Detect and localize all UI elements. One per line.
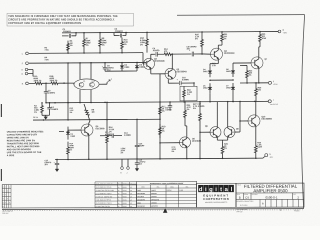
resistor R24 4.7K bbox=[184, 102, 192, 126]
junction dots line1 bbox=[67, 52, 69, 54]
svg-text:5%: 5% bbox=[224, 148, 227, 150]
svg-text:1/2W: 1/2W bbox=[257, 147, 262, 149]
wire Q7 emitter to output bbox=[258, 69, 260, 83]
wire feeder x107 bbox=[106, 102, 108, 119]
wire bridge mid tie bbox=[210, 79, 233, 81]
svg-text:C CHG R14 470 5% 1/4W: C CHG R14 470 5% 1/4W bbox=[96, 190, 115, 192]
capacitor C2 .001MFD bbox=[114, 29, 126, 38]
svg-text:D662: D662 bbox=[226, 87, 231, 89]
resistor R16 3.01K bbox=[106, 120, 115, 160]
svg-text:CS: CS bbox=[245, 196, 249, 200]
wire line 5 segments bbox=[29, 82, 33, 84]
svg-text:1/8W 1%: 1/8W 1% bbox=[34, 80, 42, 82]
svg-text:1%: 1% bbox=[140, 44, 143, 46]
svg-text:4/9/69: 4/9/69 bbox=[123, 187, 127, 189]
svg-text:d: d bbox=[199, 187, 203, 193]
svg-text:COPYRIGHT 1969 BY DIGITAL EQUI: COPYRIGHT 1969 BY DIGITAL EQUIPMENT CORP… bbox=[8, 22, 81, 25]
svg-text:DEC3639: DEC3639 bbox=[137, 196, 144, 198]
resistor R17 1K bbox=[159, 102, 167, 119]
svg-text:2N3009: 2N3009 bbox=[151, 193, 156, 195]
svg-text:4/9/69: 4/9/69 bbox=[123, 190, 127, 192]
proprietary note text bbox=[7, 13, 134, 26]
svg-text:6.8MFD: 6.8MFD bbox=[182, 79, 190, 81]
svg-text:CORPORATION: CORPORATION bbox=[203, 197, 229, 201]
svg-text:D664: D664 bbox=[124, 66, 130, 69]
wire input line 2 rail bbox=[29, 61, 146, 64]
svg-text:5: 5 bbox=[273, 81, 274, 83]
wire Q1 collector leads up bbox=[79, 63, 81, 79]
svg-text:.001MFD: .001MFD bbox=[63, 31, 72, 33]
revision table frame bbox=[2, 184, 136, 208]
resistor R14 470 bbox=[163, 48, 173, 56]
svg-text:D662: D662 bbox=[71, 136, 76, 138]
resistor R25 100 bbox=[259, 32, 267, 45]
svg-text:1%: 1% bbox=[34, 112, 37, 114]
board pin J bbox=[126, 159, 129, 174]
svg-text:.01MFD: .01MFD bbox=[165, 109, 172, 111]
svg-text:7.5K: 7.5K bbox=[45, 50, 50, 52]
sheet top border bbox=[177, 14, 305, 17]
svg-text:E CHG C6 .01MFD 35V: E CHG C6 .01MFD 35V bbox=[96, 196, 113, 198]
svg-text:5%: 5% bbox=[172, 151, 175, 153]
transistor Q3 DEC6534D bbox=[165, 68, 187, 79]
diode D3 D662 bbox=[66, 127, 75, 140]
svg-text:5%: 5% bbox=[162, 131, 165, 133]
svg-text:TITLE: TITLE bbox=[237, 184, 241, 186]
svg-text:1N3606: 1N3606 bbox=[151, 202, 156, 204]
size code number rev cells bbox=[237, 193, 300, 200]
svg-text:DEC6534D: DEC6534D bbox=[176, 70, 187, 73]
terminal 2 input bbox=[22, 62, 29, 65]
svg-text:.01MFD: .01MFD bbox=[153, 50, 161, 52]
wire node x68 vertical bbox=[67, 63, 69, 103]
svg-text:1M: 1M bbox=[92, 112, 95, 114]
terminal 5 input bbox=[22, 82, 29, 85]
svg-text:.01MFD: .01MFD bbox=[198, 106, 206, 108]
capacitor C3 1.0MFD bbox=[44, 83, 56, 103]
wire bottom rail E (-15V) bbox=[55, 158, 263, 159]
capacitor C6 .01MFD bbox=[153, 48, 164, 57]
capacitor C15 6.8MFD to ground bbox=[45, 159, 60, 169]
wire Q3 emitter bbox=[167, 79, 169, 83]
wire Q6 emitter bbox=[186, 148, 188, 159]
resistor R20 2.2K bbox=[195, 32, 203, 54]
svg-text:220: 220 bbox=[258, 89, 261, 91]
svg-text:bk: bk bbox=[118, 196, 120, 198]
resistor R6 1M bbox=[67, 41, 73, 54]
diode D6 bbox=[226, 67, 235, 78]
wire output line bbox=[240, 82, 268, 84]
svg-text:1%: 1% bbox=[70, 45, 73, 47]
capacitor C16 1.0MFD to ground bbox=[135, 159, 146, 169]
svg-text:6.8MFD: 6.8MFD bbox=[105, 134, 113, 136]
wire Q4 emitter bbox=[217, 60, 219, 64]
svg-text:F-ML-0500-0-1 REV F: F-ML-0500-0-1 REV F bbox=[96, 200, 111, 202]
ground symbol C16 bbox=[135, 168, 139, 171]
board pin H bbox=[120, 159, 123, 174]
svg-text:5%: 5% bbox=[224, 38, 227, 40]
svg-text:1%: 1% bbox=[86, 45, 89, 47]
diode D7 bbox=[226, 83, 235, 94]
wire Q8 collector bbox=[216, 102, 218, 127]
svg-text:AND ON 5X0 BOARDS: AND ON 5X0 BOARDS bbox=[7, 148, 32, 151]
svg-text:TRANSISTORS ARE DEC3009: TRANSISTORS ARE DEC3009 bbox=[7, 142, 40, 145]
wire Q2 collector to line y56 bbox=[150, 54, 152, 58]
transistor Q5 DEC3009 bbox=[81, 124, 105, 136]
resistor R14 604K bbox=[67, 142, 75, 160]
svg-text:4/9/69: 4/9/69 bbox=[123, 193, 127, 195]
terminal S output bbox=[269, 81, 279, 86]
svg-text:bk: bk bbox=[118, 200, 120, 202]
note arrow marker bbox=[163, 208, 167, 212]
svg-text:DEC3639B: DEC3639B bbox=[261, 118, 272, 120]
svg-text:1-5/8: 1-5/8 bbox=[179, 190, 183, 192]
capacitor C10 6.8MFD bbox=[177, 77, 194, 85]
svg-text:4/9/69: 4/9/69 bbox=[123, 184, 127, 186]
svg-text:bk: bk bbox=[118, 187, 120, 189]
drawing title text bbox=[237, 184, 298, 194]
resistor R1B 604K bbox=[49, 76, 60, 85]
junction dots rail C right bbox=[169, 101, 171, 103]
junction dots x160 bbox=[159, 101, 161, 103]
wire coupling line bbox=[151, 53, 156, 55]
resistor R8 604K bbox=[99, 33, 107, 53]
svg-text:0500-0-1: 0500-0-1 bbox=[265, 196, 277, 200]
svg-text:5%: 5% bbox=[193, 108, 196, 110]
junction dots rail E bbox=[67, 159, 69, 161]
svg-text:C6 1%: C6 1% bbox=[33, 117, 38, 119]
wire Q9 collector bbox=[227, 102, 229, 127]
svg-text:G-CS-0500-0-1 REV G: G-CS-0500-0-1 REV G bbox=[96, 203, 113, 205]
wire R22 top stub bbox=[240, 64, 247, 66]
title block frame bbox=[236, 183, 304, 207]
svg-text:DEC FORM NO: DEC FORM NO bbox=[237, 209, 248, 211]
svg-text:t: t bbox=[220, 187, 222, 193]
svg-text:H CHG R22 15K 5%: H CHG R22 15K 5% bbox=[96, 206, 111, 208]
wire rail D bbox=[33, 118, 160, 121]
svg-text:D662: D662 bbox=[203, 71, 208, 73]
svg-text:.001MFD: .001MFD bbox=[115, 31, 124, 33]
wire Q5 collector bbox=[89, 121, 90, 123]
svg-text:1%: 1% bbox=[70, 112, 73, 114]
terminal 4 shield pair bbox=[22, 69, 33, 76]
wire Q10 emitter bbox=[255, 127, 257, 141]
junction dots rail C left bbox=[41, 102, 43, 104]
resistor R22 15K bbox=[246, 65, 253, 83]
svg-text:25V: 25V bbox=[107, 70, 111, 72]
svg-text:B: B bbox=[239, 196, 241, 200]
resistor R21 330 bbox=[221, 32, 228, 44]
terminal 3 shield pair bbox=[22, 68, 33, 71]
wire Q4 base bbox=[202, 53, 211, 55]
wire Q2 base bbox=[142, 53, 144, 64]
svg-text:FLBC: FLBC bbox=[294, 210, 300, 212]
junction dots top rail bbox=[75, 32, 77, 34]
resistor R27 2.7K bbox=[193, 102, 201, 133]
svg-text:DEC3009: DEC3009 bbox=[96, 128, 106, 130]
svg-text:CIRCUITS ARE PROPRIETARY IN NA: CIRCUITS ARE PROPRIETARY IN NATURE AND S… bbox=[8, 19, 115, 22]
diode D2 bbox=[135, 62, 145, 71]
svg-text:1: 1 bbox=[273, 99, 274, 101]
transistor Q10 DEC3639B bbox=[248, 115, 272, 127]
resistor R29 2K bbox=[221, 142, 228, 159]
svg-text:D662: D662 bbox=[226, 71, 231, 73]
junction node line5 bbox=[45, 83, 47, 85]
svg-text:470: 470 bbox=[164, 50, 167, 53]
wire bridge left bottom bbox=[209, 94, 211, 102]
svg-text:A SIDE: A SIDE bbox=[7, 154, 15, 157]
transistor Q6 DEC3639 bbox=[180, 137, 202, 148]
svg-text:REV: REV bbox=[293, 194, 296, 196]
ground symbol C15 bbox=[55, 169, 59, 172]
capacitor C11 .01MFD bbox=[165, 102, 172, 111]
left form note bbox=[2, 211, 13, 215]
digital logo boxes bbox=[198, 185, 234, 193]
resistor R7 604K bbox=[83, 33, 91, 53]
svg-text:1%: 1% bbox=[121, 152, 124, 154]
wire +10V top rail bbox=[62, 31, 279, 32]
svg-text:RESISTORS ARE 1/4W 5%: RESISTORS ARE 1/4W 5% bbox=[7, 139, 35, 142]
svg-text:4/9/69: 4/9/69 bbox=[123, 203, 127, 205]
wire Q10 base bbox=[240, 120, 248, 122]
wire Q6 base bbox=[160, 142, 180, 144]
wire input line 1 bbox=[29, 52, 143, 55]
resistor R12 6.04K bbox=[140, 32, 148, 52]
svg-text:D-CS-0500-0-1 REV D: D-CS-0500-0-1 REV D bbox=[96, 193, 113, 195]
svg-text:THIS SCHEMATIC IS FURNISHED ON: THIS SCHEMATIC IS FURNISHED ONLY FOR TES… bbox=[8, 15, 118, 18]
svg-text:D662: D662 bbox=[203, 88, 208, 90]
transistor Q2 DEC6534B bbox=[144, 58, 165, 69]
svg-text:PRINTED CIRCUIT REV.: PRINTED CIRCUIT REV. bbox=[237, 201, 254, 203]
sheet bottom border bbox=[2, 208, 304, 211]
svg-text:bk: bk bbox=[118, 190, 120, 192]
capacitor C4 .01MFD bbox=[47, 103, 58, 116]
svg-text:4/9/69: 4/9/69 bbox=[123, 206, 127, 208]
svg-text:DEC3009B: DEC3009B bbox=[137, 193, 146, 195]
transistor Q4 DEC6534D bbox=[211, 48, 235, 60]
capacitor C7 6.8MFD bbox=[100, 132, 122, 138]
wire Q9 base bbox=[235, 131, 240, 133]
svg-text:B-CS-0500: B-CS-0500 bbox=[240, 205, 248, 207]
resistor R1A 604K bbox=[33, 75, 44, 85]
capacitor C14 680PF bbox=[135, 119, 145, 159]
wire feeder x240 bbox=[239, 102, 241, 122]
svg-text:DEC6534D: DEC6534D bbox=[224, 52, 235, 55]
selected resistor R18 box bbox=[180, 86, 197, 101]
logo block frame bbox=[197, 183, 237, 207]
capacitor C1 .001MFD bbox=[62, 29, 76, 38]
svg-text:Q1: Q1 bbox=[83, 81, 85, 83]
wire mid rail C bbox=[46, 101, 265, 102]
transistor Q9 differential right bbox=[224, 127, 240, 138]
diode D4 bbox=[203, 67, 212, 78]
svg-text:USE THE ETCH BOARD OF THE: USE THE ETCH BOARD OF THE bbox=[7, 151, 42, 154]
wire Q2 emitter to Q3 base bbox=[150, 69, 152, 74]
svg-text:7.5K: 7.5K bbox=[45, 59, 50, 61]
terminal G -15V bbox=[263, 154, 274, 159]
svg-text:1%: 1% bbox=[70, 149, 73, 151]
wire emitter join bbox=[216, 138, 218, 141]
svg-text:J: J bbox=[126, 172, 127, 174]
svg-text:bk: bk bbox=[118, 184, 120, 186]
left margin fold tick upper bbox=[0, 104, 2, 117]
wire Q1 output to test point bbox=[99, 79, 112, 84]
resistor R10 2.4K bbox=[121, 37, 129, 52]
svg-text:5%: 5% bbox=[249, 75, 252, 77]
transistor and diode conversion chart bbox=[137, 181, 197, 207]
wire diode subrail bbox=[105, 70, 137, 72]
wire Q1 base lead bbox=[64, 82, 74, 84]
svg-text:1.5K: 1.5K bbox=[212, 65, 217, 67]
svg-text:2: 2 bbox=[111, 79, 112, 81]
svg-text:UNLESS OTHERWISE INDICATED:: UNLESS OTHERWISE INDICATED: bbox=[7, 130, 44, 133]
terminal 1 input bbox=[22, 52, 29, 55]
svg-text:2N3639: 2N3639 bbox=[151, 196, 156, 198]
svg-text:1%: 1% bbox=[187, 94, 190, 96]
wire node x160 vertical bbox=[159, 74, 161, 159]
junction dots rail D bbox=[136, 119, 138, 121]
wire Q5 emitter bbox=[88, 136, 90, 159]
svg-text:g: g bbox=[209, 187, 213, 193]
svg-text:5%: 5% bbox=[195, 38, 198, 40]
printed circuit rev row bbox=[237, 199, 299, 207]
svg-text:OHMS ARE 1/4W 5%: OHMS ARE 1/4W 5% bbox=[7, 136, 29, 139]
ground symbol left bbox=[44, 117, 48, 120]
svg-text:5%: 5% bbox=[187, 109, 190, 111]
diode D5 bbox=[203, 83, 212, 94]
wire box to rail bbox=[183, 101, 185, 103]
svg-text:D662: D662 bbox=[137, 190, 141, 192]
wire Q6 collector bbox=[186, 126, 188, 137]
svg-text:1.0MFD: 1.0MFD bbox=[124, 135, 132, 137]
dual transistor Q1 DEC6534 bbox=[74, 79, 99, 90]
wire x200 lower bbox=[199, 132, 201, 158]
notes text block bbox=[7, 130, 44, 157]
wire Q8 base bbox=[200, 131, 210, 133]
svg-text:DEC FORM NO: DEC FORM NO bbox=[2, 211, 13, 213]
transistor Q8 differential left bbox=[205, 126, 221, 138]
svg-text:DRB 102: DRB 102 bbox=[2, 213, 8, 215]
svg-text:DEC6534B: DEC6534B bbox=[154, 60, 165, 63]
svg-text:1/2W: 1/2W bbox=[262, 38, 267, 40]
resistor R30 1.5K bbox=[255, 140, 263, 158]
resistor R19 1K bbox=[159, 124, 167, 138]
svg-text:680PF: 680PF bbox=[139, 145, 146, 147]
wire Q5 base bbox=[68, 129, 81, 131]
wire Q3 collector bbox=[171, 54, 173, 68]
terminal B +10V bbox=[278, 30, 287, 35]
svg-text:NUMBER: NUMBER bbox=[252, 194, 258, 196]
revision entries grid bbox=[95, 182, 137, 208]
svg-text:1.0MFD: 1.0MFD bbox=[48, 93, 56, 95]
svg-text:.01MFD: .01MFD bbox=[51, 109, 59, 111]
resistor R9 1M diagonal bbox=[84, 104, 95, 121]
svg-text:bk: bk bbox=[118, 193, 120, 195]
resistor R26 220 bbox=[255, 83, 262, 102]
svg-text:bk: bk bbox=[118, 203, 120, 205]
terminal E mid rail bbox=[265, 99, 278, 105]
svg-text:5%: 5% bbox=[124, 44, 127, 46]
svg-text:6534: 6534 bbox=[92, 81, 96, 83]
svg-text:4/9/69: 4/9/69 bbox=[123, 200, 127, 202]
svg-text:AMPLIFIER 0500: AMPLIFIER 0500 bbox=[253, 188, 288, 193]
wire Q1 emitter leads down bbox=[79, 90, 81, 103]
junction dot Q5 base on x68 bbox=[67, 130, 69, 132]
svg-text:INSTALL HEAT SINK DEC3639: INSTALL HEAT SINK DEC3639 bbox=[7, 145, 40, 148]
junction dots line2 bbox=[79, 62, 81, 64]
sheet note text bbox=[237, 208, 301, 213]
capacitor C5 10MFD bbox=[102, 63, 115, 72]
wire Q7 collector bbox=[258, 47, 260, 57]
svg-text:B-CS-0500-0-1 REV B: B-CS-0500-0-1 REV B bbox=[96, 187, 111, 189]
sheet right border bbox=[301, 15, 304, 209]
svg-text:4/9/69: 4/9/69 bbox=[123, 196, 127, 198]
svg-text:1/8W 1%: 1/8W 1% bbox=[50, 80, 58, 82]
left margin fold tick lower bbox=[0, 169, 2, 181]
svg-text:bk: bk bbox=[118, 206, 120, 208]
svg-text:DEC-6: DEC-6 bbox=[167, 190, 172, 192]
transistor Q7 DEC6534 bbox=[251, 57, 268, 69]
wire bridge right bbox=[232, 94, 234, 102]
diode D1 bbox=[120, 63, 130, 72]
wire coupling line right bbox=[173, 53, 192, 55]
svg-text:1%: 1% bbox=[102, 45, 105, 47]
wire Q10 collector bbox=[255, 101, 257, 115]
wire ground tie bbox=[42, 114, 50, 116]
capacitor C8 6.8MFD bbox=[187, 46, 203, 56]
wire Q4 collector bbox=[217, 45, 219, 48]
svg-text:CAPACITORS ARE MFD 35V: CAPACITORS ARE MFD 35V bbox=[7, 133, 38, 136]
resistor R2 560 bbox=[34, 103, 43, 116]
